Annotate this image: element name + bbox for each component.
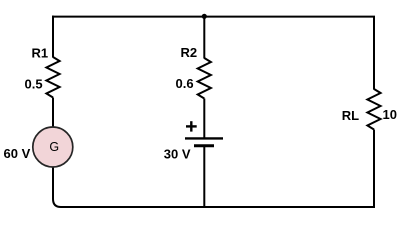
wire generator to bottom with rounded corner [53,167,61,207]
wire R2 to battery [203,99,205,139]
plus sign horizontal stroke [186,125,197,127]
svg-text:60 V: 60 V [4,146,31,161]
wire battery to bottom [203,147,205,208]
svg-text:RL: RL [342,108,359,123]
resistor RL zigzag [367,89,380,130]
svg-text:G: G [49,140,59,154]
resistor R2 zigzag [198,58,211,99]
generator G circle [33,127,73,167]
wire left branch upper segment [52,16,54,58]
junction node dot top middle [202,14,207,19]
wire top horizontal [52,16,375,18]
battery top plate (positive, long) [185,137,223,139]
wire R1 to generator [52,98,54,128]
svg-text:30 V: 30 V [164,146,191,161]
wire bottom horizontal [61,206,375,208]
svg-text:R1: R1 [32,46,49,61]
battery bottom plate (negative, short) [194,144,214,147]
svg-text:0.6: 0.6 [176,76,194,91]
wire right branch upper segment [373,17,375,90]
wire middle branch upper segment [203,17,205,59]
resistor R1 zigzag [46,57,59,98]
plus sign vertical stroke [190,121,192,131]
wire RL to bottom [373,130,375,209]
svg-text:10: 10 [383,107,397,122]
svg-text:0.5: 0.5 [25,76,43,91]
svg-text:R2: R2 [181,45,198,60]
